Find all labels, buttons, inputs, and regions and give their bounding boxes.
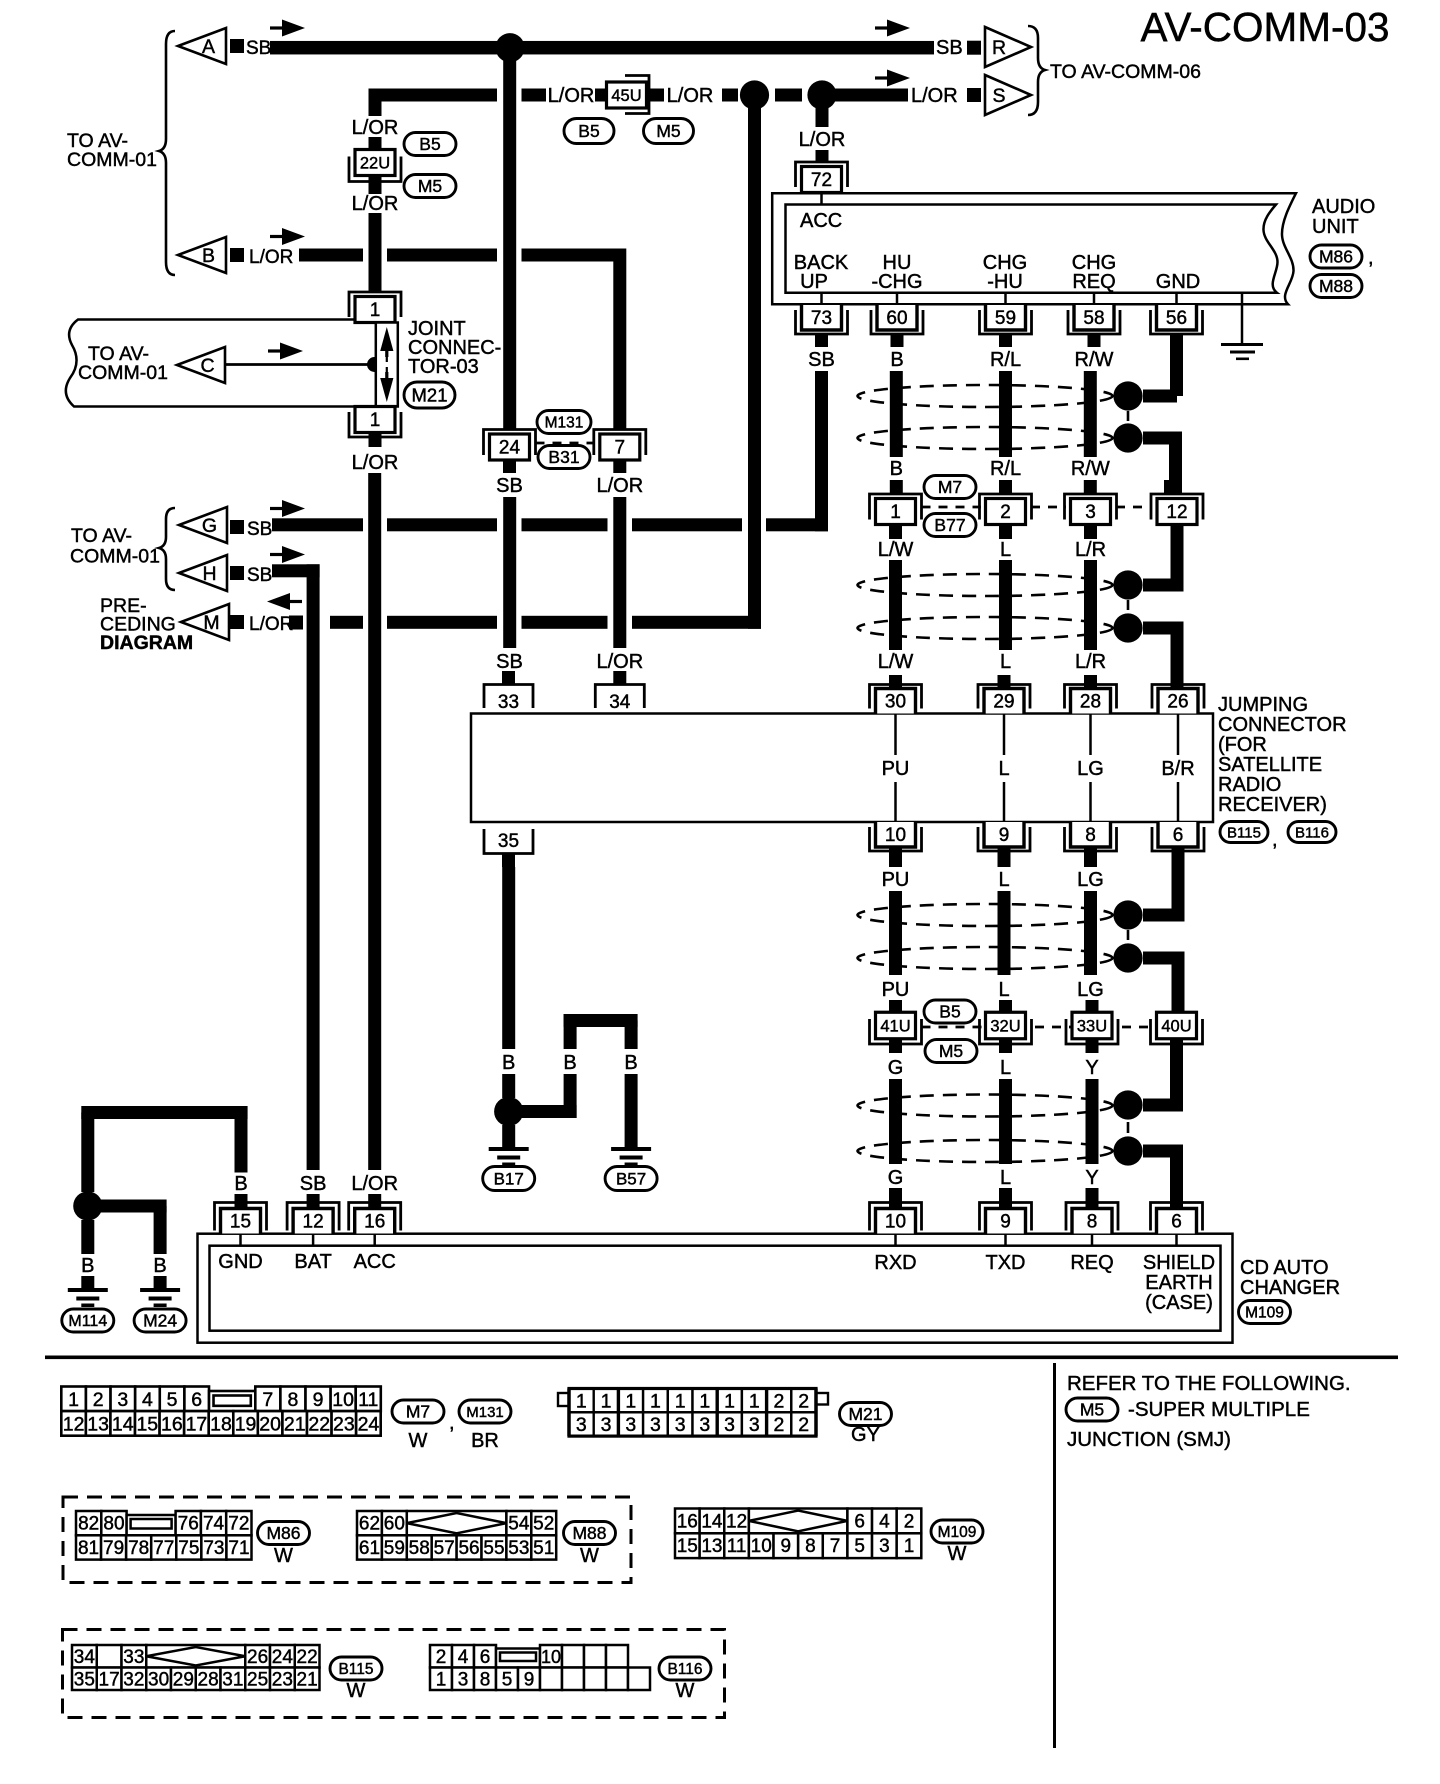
svg-text:60: 60 xyxy=(886,308,907,329)
svg-text:CD AUTO: CD AUTO xyxy=(1240,1257,1329,1279)
shield ellipses group 3 xyxy=(858,904,1113,926)
svg-text:2: 2 xyxy=(436,1647,447,1668)
svg-text:SB: SB xyxy=(247,565,272,586)
svg-text:18: 18 xyxy=(210,1413,232,1435)
wire R/L pin 59 through shield 1 xyxy=(999,371,1012,457)
svg-text:L/OR: L/OR xyxy=(799,129,846,151)
thin link 28-8 with label LG xyxy=(1089,714,1092,756)
svg-text:SB: SB xyxy=(936,37,963,59)
svg-text:PU: PU xyxy=(882,979,910,1001)
svg-text:10: 10 xyxy=(885,825,906,846)
wire L/OR vertical to CD changer pin 16 xyxy=(368,473,381,1170)
svg-text:21: 21 xyxy=(297,1669,318,1690)
wire L/OR 22U to joint connector xyxy=(369,213,382,292)
connector grid M7/M131 24-pin xyxy=(61,1387,86,1412)
svg-text:L: L xyxy=(1000,1057,1011,1079)
svg-text:71: 71 xyxy=(228,1538,249,1559)
svg-text:3: 3 xyxy=(675,1414,686,1436)
CD changer pin 10 xyxy=(870,1203,922,1231)
brace TO AV-COMM-01 (G/H) xyxy=(159,508,175,590)
junction dot on C wire xyxy=(367,357,382,372)
oval B116 id xyxy=(1288,822,1336,843)
svg-text:LG: LG xyxy=(1077,979,1104,1001)
svg-text:-CHG: -CHG xyxy=(871,271,922,293)
svg-text:-SUPER MULTIPLE: -SUPER MULTIPLE xyxy=(1128,1398,1310,1421)
shield drain dot 1b xyxy=(1113,423,1142,452)
svg-text:B115: B115 xyxy=(1227,824,1261,841)
wire L/OR B segment 3 and corner down xyxy=(522,249,627,262)
svg-text:M5: M5 xyxy=(418,176,442,196)
svg-text:B: B xyxy=(563,1052,576,1074)
wire L/OR B segment 2 xyxy=(387,249,497,262)
wire from dot 2b to jumping connector 26 xyxy=(1143,622,1184,635)
wire B branch to M24 xyxy=(88,1200,167,1213)
svg-text:M88: M88 xyxy=(1319,276,1353,296)
svg-text:12: 12 xyxy=(63,1413,85,1435)
svg-text:W: W xyxy=(580,1545,599,1567)
svg-text:M7: M7 xyxy=(406,1402,430,1422)
svg-text:21: 21 xyxy=(284,1413,306,1435)
svg-text:M5: M5 xyxy=(1080,1400,1104,1420)
svg-text:3: 3 xyxy=(1085,502,1096,523)
svg-text:L/OR: L/OR xyxy=(352,452,399,474)
svg-text:SB: SB xyxy=(808,349,835,371)
svg-text:2: 2 xyxy=(798,1390,809,1412)
svg-text:Y: Y xyxy=(1085,1167,1098,1189)
connector 1 (B77/M7 row) xyxy=(890,480,903,494)
wire G stub to CD pin 10 xyxy=(889,1188,902,1209)
svg-text:2: 2 xyxy=(1000,502,1011,523)
svg-text:B17: B17 xyxy=(494,1169,524,1188)
junction dot L/OR 2 xyxy=(807,80,836,109)
svg-text:L/OR: L/OR xyxy=(352,117,399,139)
wire L/OR horizontal segment from corner xyxy=(369,89,498,102)
svg-text:L: L xyxy=(1000,1167,1011,1189)
wire L/OR 7 to 34 xyxy=(613,497,626,648)
svg-text:Y: Y xyxy=(1085,1057,1098,1079)
jumping connector pin 26 xyxy=(1152,685,1204,709)
svg-text:3: 3 xyxy=(576,1414,587,1436)
connector arrow R xyxy=(985,27,1031,67)
svg-text:W: W xyxy=(948,1543,967,1565)
svg-text:B: B xyxy=(234,1173,247,1195)
connector 2 (B77/M7 row) xyxy=(999,480,1012,494)
svg-text:76: 76 xyxy=(178,1514,199,1535)
svg-text:10: 10 xyxy=(332,1389,354,1411)
thin link 30-10 with label PU xyxy=(894,714,897,756)
CD auto changer box xyxy=(198,1234,1233,1343)
svg-text:10: 10 xyxy=(541,1647,561,1667)
svg-text:30: 30 xyxy=(148,1669,169,1690)
svg-text:SB: SB xyxy=(496,651,523,673)
svg-text:SB: SB xyxy=(246,38,271,59)
svg-text:RECEIVER): RECEIVER) xyxy=(1218,794,1327,816)
svg-text:B: B xyxy=(502,1052,515,1074)
svg-text:16: 16 xyxy=(161,1413,183,1435)
direction arrow above L/OR wire B xyxy=(270,235,292,238)
svg-text:4: 4 xyxy=(879,1511,890,1532)
svg-text:82: 82 xyxy=(78,1514,99,1535)
connector grid M109 xyxy=(675,1509,700,1534)
shield ellipses group 2 xyxy=(858,574,1113,596)
svg-text:PU: PU xyxy=(882,869,910,891)
svg-text:5: 5 xyxy=(502,1669,513,1690)
svg-text:B31: B31 xyxy=(548,447,579,467)
svg-text:B: B xyxy=(153,1255,166,1277)
svg-text:73: 73 xyxy=(203,1538,224,1559)
svg-text:BAT: BAT xyxy=(294,1251,331,1273)
wire L/OR dash after SB crossing xyxy=(522,89,547,102)
vertical divider xyxy=(1053,1363,1056,1748)
connector 12 (B77/M7 row) xyxy=(1164,480,1177,494)
svg-text:,: , xyxy=(449,1412,455,1434)
svg-text:L/OR: L/OR xyxy=(548,85,595,107)
oval M86 xyxy=(1310,245,1362,268)
audio unit pin 73 xyxy=(820,293,823,305)
svg-text:15: 15 xyxy=(230,1212,251,1233)
svg-text:LG: LG xyxy=(1077,758,1104,780)
wire PU through shield 3 xyxy=(889,891,902,975)
svg-text:L/OR: L/OR xyxy=(351,1173,398,1195)
svg-text:53: 53 xyxy=(508,1538,529,1559)
wire C to joint connector xyxy=(225,363,375,366)
svg-text:8: 8 xyxy=(287,1389,298,1411)
svg-text:17: 17 xyxy=(186,1413,208,1435)
wire 6 down to shield drain dot 3a xyxy=(1172,867,1185,915)
wire L through shield 3 xyxy=(998,891,1011,975)
svg-text:24: 24 xyxy=(272,1647,294,1668)
svg-text:,: , xyxy=(1368,247,1374,269)
oval M131 xyxy=(537,411,591,434)
connector 7 xyxy=(594,430,646,456)
shield ellipses group 4 xyxy=(858,1095,1113,1117)
svg-text:80: 80 xyxy=(103,1514,124,1535)
svg-text:4: 4 xyxy=(142,1389,153,1411)
svg-text:2: 2 xyxy=(798,1414,809,1436)
wire L/OR from dot down to connector 72 xyxy=(816,95,829,127)
oval B115 grid id xyxy=(330,1657,382,1680)
svg-text:L/OR: L/OR xyxy=(352,193,399,215)
wire 12 down to shield drain dot 2a xyxy=(1171,527,1184,585)
svg-text:15: 15 xyxy=(677,1536,698,1557)
svg-text:M7: M7 xyxy=(938,477,962,497)
connector grid B115 xyxy=(72,1645,97,1668)
svg-text:BR: BR xyxy=(471,1430,499,1452)
svg-text:72: 72 xyxy=(811,170,832,191)
svg-text:R/W: R/W xyxy=(1075,349,1114,371)
wire L/OR M segments xyxy=(330,616,363,629)
oval B116 grid id xyxy=(659,1657,711,1680)
connector arrow G xyxy=(179,507,227,543)
svg-text:75: 75 xyxy=(178,1538,199,1559)
svg-text:59: 59 xyxy=(384,1538,405,1559)
oval B17 xyxy=(483,1167,535,1191)
direction arrow above SB wire right xyxy=(875,26,897,29)
svg-text:RADIO: RADIO xyxy=(1218,774,1281,796)
svg-text:GY: GY xyxy=(851,1424,880,1446)
svg-text:(FOR: (FOR xyxy=(1218,734,1267,756)
svg-text:3: 3 xyxy=(879,1536,890,1557)
shield dash between dots 1 xyxy=(1127,411,1130,421)
shield drain dot 4a xyxy=(1113,1090,1142,1119)
svg-text:12: 12 xyxy=(1166,502,1187,523)
SMJ connector 32U xyxy=(999,1000,1012,1013)
shield drain dot 2b xyxy=(1113,613,1142,642)
connector arrow C xyxy=(177,347,225,383)
audio unit pin 60 xyxy=(896,293,899,305)
svg-text:9: 9 xyxy=(781,1536,792,1557)
joint connector pin 1 top xyxy=(369,279,382,292)
svg-text:B116: B116 xyxy=(1295,824,1329,841)
svg-text:G: G xyxy=(888,1167,904,1189)
svg-text:1: 1 xyxy=(370,410,381,431)
junction dot SB bus xyxy=(495,33,524,62)
svg-text:29: 29 xyxy=(173,1669,194,1690)
svg-text:15: 15 xyxy=(136,1413,158,1435)
svg-text:G: G xyxy=(888,1057,904,1079)
connector grid M21 20-pin xyxy=(558,1393,569,1406)
oval M109 id xyxy=(1239,1301,1291,1324)
CD changer pin 12 xyxy=(287,1203,339,1231)
svg-text:M: M xyxy=(203,612,219,634)
svg-text:L/W: L/W xyxy=(878,539,914,561)
shield drain dot 2a xyxy=(1113,570,1142,599)
connector 3 (B77/M7 row) xyxy=(1084,480,1097,494)
wire G through shield 4 xyxy=(889,1079,902,1164)
svg-text:L/OR: L/OR xyxy=(249,247,293,268)
svg-text:13: 13 xyxy=(701,1536,722,1557)
svg-text:3: 3 xyxy=(650,1414,661,1436)
CD changer pin 9 xyxy=(980,1203,1032,1231)
connector arrow S xyxy=(985,75,1031,115)
svg-text:32U: 32U xyxy=(990,1017,1020,1035)
svg-text:-HU: -HU xyxy=(987,271,1023,293)
junction dot L/OR 1 xyxy=(740,80,769,109)
svg-text:M131: M131 xyxy=(545,414,584,431)
audio unit pin 58 xyxy=(1093,293,1096,305)
svg-text:1: 1 xyxy=(724,1390,735,1412)
wire L/OR to S arrow xyxy=(835,89,908,102)
svg-text:M5: M5 xyxy=(656,121,680,141)
svg-text:R/W: R/W xyxy=(1071,458,1110,480)
jumping connector pin 35 xyxy=(484,829,533,854)
svg-text:6: 6 xyxy=(480,1647,491,1668)
svg-text:COMM-01: COMM-01 xyxy=(67,149,157,171)
svg-text:W: W xyxy=(274,1545,293,1567)
svg-text:14: 14 xyxy=(701,1511,723,1532)
svg-text:3: 3 xyxy=(749,1414,760,1436)
svg-text:9: 9 xyxy=(524,1669,535,1690)
wire B to ground B17 xyxy=(502,1125,515,1147)
oval M5 near 45U xyxy=(644,119,694,144)
direction arrow on C wire xyxy=(268,349,290,352)
audio unit internal ground xyxy=(1241,293,1244,344)
svg-text:5: 5 xyxy=(854,1536,865,1557)
svg-text:3: 3 xyxy=(458,1669,469,1690)
jumping connector pin 8 bottom xyxy=(1071,822,1111,847)
banner TO AV-COMM-01 (C) xyxy=(66,320,376,407)
svg-text:28: 28 xyxy=(198,1669,219,1690)
svg-text:51: 51 xyxy=(533,1538,554,1559)
svg-text:1: 1 xyxy=(650,1390,661,1412)
svg-text:8: 8 xyxy=(480,1669,491,1690)
svg-text:3: 3 xyxy=(625,1414,636,1436)
svg-text:G: G xyxy=(202,515,217,537)
svg-text:L/OR: L/OR xyxy=(249,614,293,635)
oval B5 near 45U xyxy=(564,119,614,144)
svg-text:2: 2 xyxy=(93,1389,104,1411)
connector grid B116 xyxy=(430,1645,452,1668)
connector 24 xyxy=(484,430,536,456)
SMJ connector 22U xyxy=(369,137,382,150)
ground symbol B17 xyxy=(489,1147,529,1151)
wire SB horizontal top xyxy=(270,41,934,55)
svg-text:REQ: REQ xyxy=(1072,271,1115,293)
svg-text:12: 12 xyxy=(726,1511,747,1532)
svg-text:26: 26 xyxy=(1167,692,1188,713)
shield dash between dots 4 xyxy=(1127,1122,1130,1133)
oval M7 xyxy=(924,476,976,499)
svg-text:60: 60 xyxy=(384,1514,405,1535)
svg-text:22: 22 xyxy=(297,1647,318,1668)
svg-text:8: 8 xyxy=(1085,825,1096,846)
oval M5 note xyxy=(1066,1398,1118,1421)
wire 40U down to shield drain dot 4a xyxy=(1170,1053,1183,1105)
SMJ connector 40U xyxy=(1151,1019,1203,1044)
SMJ dashed links row 2 xyxy=(922,1026,986,1029)
svg-text:L/R: L/R xyxy=(1075,539,1106,561)
svg-text:M86: M86 xyxy=(1319,247,1353,267)
svg-text:52: 52 xyxy=(533,1514,554,1535)
svg-text:2: 2 xyxy=(774,1414,785,1436)
svg-text:B77: B77 xyxy=(934,515,965,535)
svg-text:R/L: R/L xyxy=(990,458,1021,480)
svg-text:7: 7 xyxy=(830,1536,841,1557)
svg-text:,: , xyxy=(1272,829,1278,851)
svg-text:10: 10 xyxy=(885,1212,906,1233)
jumping connector pin 29 xyxy=(998,675,1011,689)
svg-text:TXD: TXD xyxy=(986,1252,1026,1274)
svg-text:33: 33 xyxy=(123,1647,144,1668)
svg-text:9: 9 xyxy=(1000,1212,1011,1233)
svg-text:79: 79 xyxy=(103,1538,124,1559)
svg-text:B: B xyxy=(202,245,215,267)
svg-text:L/R: L/R xyxy=(1075,651,1106,673)
direction arrow above L/OR wire right xyxy=(875,76,897,79)
shield drain dot 1a xyxy=(1113,381,1142,410)
jumping connector pin 33 xyxy=(502,671,515,684)
svg-text:23: 23 xyxy=(272,1669,293,1690)
svg-text:40U: 40U xyxy=(1161,1017,1191,1035)
svg-text:24: 24 xyxy=(499,438,521,459)
wire from dot 4b to CD pin 6 xyxy=(1143,1145,1183,1158)
svg-text:B57: B57 xyxy=(616,1169,646,1188)
connector 72 xyxy=(796,162,848,187)
svg-text:45U: 45U xyxy=(611,87,641,105)
connector arrow H xyxy=(179,555,227,591)
SMJ dashed link 24-7 xyxy=(536,442,595,445)
wire B to ground M114 xyxy=(81,1220,94,1254)
svg-text:7: 7 xyxy=(615,438,626,459)
oval B77 xyxy=(924,514,976,537)
direction arrow above SB wire H xyxy=(270,553,292,556)
svg-text:5: 5 xyxy=(167,1389,178,1411)
svg-text:2: 2 xyxy=(774,1390,785,1412)
svg-text:77: 77 xyxy=(153,1538,174,1559)
oval B115 id xyxy=(1220,822,1268,843)
svg-text:SB: SB xyxy=(300,1173,327,1195)
wire L/W through shield 2 xyxy=(889,560,902,650)
svg-text:AUDIO: AUDIO xyxy=(1312,196,1375,218)
svg-text:L/OR: L/OR xyxy=(667,85,714,107)
svg-text:22: 22 xyxy=(308,1413,330,1435)
oval M5 near 22U xyxy=(404,175,456,198)
direction arrow above SB wire A xyxy=(270,26,292,29)
wire R/W pin 58 through shield 1 xyxy=(1084,371,1097,457)
wire LG through shield 3 xyxy=(1084,891,1097,975)
wire L/OR dash piece 1 xyxy=(722,89,738,102)
svg-text:S: S xyxy=(992,85,1005,107)
wire L/R through shield 2 xyxy=(1084,560,1097,650)
connector arrow B xyxy=(178,237,226,273)
svg-text:M114: M114 xyxy=(68,1313,107,1330)
shield dash between dots 2 xyxy=(1127,600,1130,610)
svg-text:1: 1 xyxy=(68,1389,79,1411)
svg-text:35: 35 xyxy=(74,1669,95,1690)
svg-text:REFER TO THE FOLLOWING.: REFER TO THE FOLLOWING. xyxy=(1067,1372,1351,1395)
shield dash between dots 3 xyxy=(1127,930,1130,940)
svg-text:26: 26 xyxy=(247,1647,268,1668)
svg-text:M24: M24 xyxy=(143,1311,177,1331)
svg-text:GND: GND xyxy=(1156,271,1200,293)
svg-text:CONNECTOR: CONNECTOR xyxy=(1218,714,1347,736)
svg-text:72: 72 xyxy=(228,1514,249,1535)
wire SB 24 to 33 xyxy=(503,497,516,648)
svg-text:6: 6 xyxy=(191,1389,202,1411)
svg-text:L: L xyxy=(998,979,1009,1001)
dashed group box B115/B116 xyxy=(63,1630,725,1718)
svg-text:L/W: L/W xyxy=(878,651,914,673)
wire B down to ground B57 xyxy=(625,1074,638,1147)
svg-text:ACC: ACC xyxy=(354,1251,396,1273)
svg-text:B116: B116 xyxy=(667,1661,702,1678)
label ACC in audio unit xyxy=(820,193,823,205)
brace TO AV-COMM-06 xyxy=(1028,26,1045,115)
svg-text:58: 58 xyxy=(409,1538,430,1559)
svg-text:6: 6 xyxy=(1173,825,1184,846)
thin link 29-9 with label L xyxy=(1003,714,1006,756)
svg-text:B/R: B/R xyxy=(1161,758,1194,780)
svg-text:L: L xyxy=(998,758,1009,780)
svg-text:4: 4 xyxy=(458,1647,469,1668)
svg-text:19: 19 xyxy=(235,1413,257,1435)
wire B branch to B57 xyxy=(509,1105,577,1118)
ground symbol M114 xyxy=(68,1288,108,1292)
jumping connector pin 28 xyxy=(1084,675,1097,689)
svg-text:11: 11 xyxy=(727,1536,747,1557)
brace TO AV-COMM-01 (A/B) xyxy=(159,31,175,275)
svg-text:30: 30 xyxy=(885,692,906,713)
svg-text:AV-COMM-03: AV-COMM-03 xyxy=(1140,4,1389,50)
svg-text:B: B xyxy=(890,349,903,371)
svg-text:1: 1 xyxy=(436,1669,447,1690)
svg-text:29: 29 xyxy=(993,692,1014,713)
oval M109 grid id xyxy=(931,1520,983,1543)
jumping connector pin 34 xyxy=(613,671,626,684)
svg-text:22U: 22U xyxy=(360,154,390,172)
svg-text:B: B xyxy=(890,458,903,480)
CD changer pin 16 xyxy=(349,1203,401,1231)
